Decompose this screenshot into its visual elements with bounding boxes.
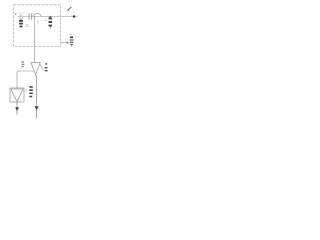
arrowhead connector	[67, 41, 69, 44]
node dot right	[73, 15, 75, 17]
source circle	[19, 15, 23, 19]
wire amp to transducer	[17, 71, 34, 88]
wire top rail	[18, 16, 78, 18]
label t1	[26, 25, 29, 27]
label f0	[21, 62, 24, 67]
wire to amp	[34, 17, 36, 63]
node junction	[34, 16, 36, 18]
connector X1 cap	[70, 36, 73, 38]
dashed enclosure box	[14, 5, 61, 47]
transducer box T1	[10, 88, 24, 102]
transducer triangle	[11, 89, 23, 102]
ground G1	[20, 19, 22, 21]
label t2	[25, 90, 27, 92]
op-amp A1 triangle	[31, 62, 40, 75]
label near wire	[37, 21, 39, 23]
capacitor C1 plates	[29, 13, 32, 19]
wire beam down	[16, 102, 18, 115]
label squiggle	[19, 12, 25, 14]
label A1	[45, 64, 48, 71]
connector X1 stub	[71, 45, 73, 46]
label x1	[69, 33, 72, 35]
amp lead	[40, 64, 43, 71]
arrowhead output	[35, 106, 39, 110]
svg-text:ε: ε	[15, 11, 17, 16]
node at box	[16, 87, 18, 89]
label r1	[45, 19, 47, 21]
label stack out	[29, 87, 33, 97]
inductor arch	[33, 13, 41, 16]
wire to connector	[61, 42, 68, 44]
wire output down	[35, 75, 38, 119]
connector X1 bars	[70, 40, 74, 45]
resistor stack R1	[49, 16, 51, 18]
arrow pointer	[68, 7, 72, 10]
arrowhead beam	[15, 107, 19, 111]
label stub	[20, 14, 22, 16]
